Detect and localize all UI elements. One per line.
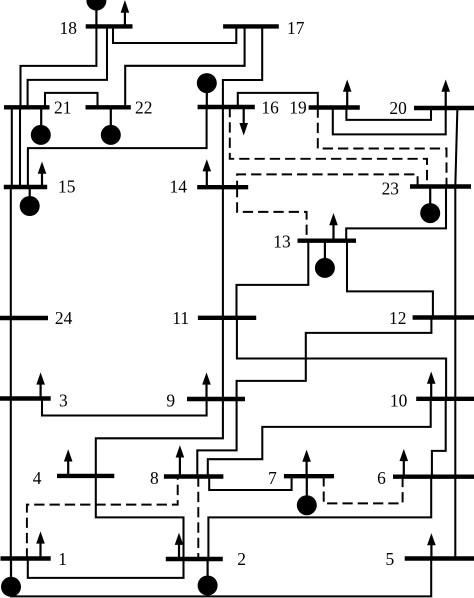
bus 2 bbox=[166, 557, 223, 561]
bus 1 bbox=[1, 556, 51, 560]
wire line 8-10 bbox=[208, 399, 431, 477]
wire line 13-23 bbox=[346, 187, 446, 241]
wire line 16-15 bbox=[28, 107, 207, 187]
svg-text:17: 17 bbox=[287, 18, 305, 38]
wire line 15-21 circuit B bbox=[19, 107, 21, 187]
wire line 18-21 circuit A bbox=[21, 26, 97, 107]
generator G16 bbox=[197, 73, 217, 107]
generator G21 bbox=[31, 107, 51, 145]
generator G18 bbox=[86, 0, 106, 26]
svg-text:22: 22 bbox=[135, 98, 152, 118]
generator G22 bbox=[101, 107, 121, 145]
svg-text:11: 11 bbox=[172, 308, 189, 328]
svg-text:24: 24 bbox=[55, 308, 73, 328]
wire line 23-12 bbox=[454, 187, 456, 318]
dashed candidate line 2-8 bbox=[197, 477, 199, 560]
dashed candidate line 19-23 bbox=[318, 108, 447, 187]
generator G7 bbox=[297, 476, 317, 515]
load arrow bus 8 bbox=[176, 445, 185, 476]
load arrow bus 10 bbox=[427, 372, 436, 399]
bus 12 bbox=[413, 315, 474, 319]
bus 6 bbox=[393, 475, 474, 479]
svg-text:4: 4 bbox=[33, 468, 42, 488]
wire line 15-24 bbox=[10, 187, 12, 318]
load arrow bus 4 bbox=[64, 449, 73, 476]
wire line 16-19 bbox=[238, 93, 318, 108]
svg-text:16: 16 bbox=[261, 98, 279, 118]
dashed candidate line 14-23 bbox=[237, 174, 418, 187]
bus 9 bbox=[187, 397, 245, 401]
svg-text:15: 15 bbox=[58, 177, 76, 197]
wire line 21-22 bbox=[45, 93, 98, 107]
svg-text:8: 8 bbox=[150, 468, 159, 488]
wire line 14-11 bbox=[222, 187, 224, 318]
wire line 5-10 bbox=[454, 399, 456, 559]
wire line 18-21 circuit B bbox=[28, 26, 107, 107]
wire line 13-12 bbox=[347, 241, 433, 318]
generator G2 bbox=[198, 559, 218, 596]
wire line 18-17 bbox=[113, 26, 236, 43]
load arrow bus 18 bbox=[121, 0, 130, 26]
bus 16 bbox=[198, 105, 255, 109]
dashed candidate line 16-23 bbox=[230, 107, 427, 187]
svg-text:12: 12 bbox=[389, 308, 406, 328]
dashed candidate line 1-8 bbox=[27, 477, 178, 559]
generator G1 bbox=[1, 559, 21, 597]
bus 8 bbox=[164, 474, 224, 478]
svg-text:19: 19 bbox=[289, 98, 306, 118]
bus 10 bbox=[416, 397, 474, 401]
wire line 1-2 bbox=[28, 559, 184, 578]
load arrow bus 19 bbox=[343, 80, 352, 108]
wire line 19-20 circuit 1 bbox=[346, 108, 431, 120]
generator G15 bbox=[20, 187, 40, 216]
load arrow bus 14 bbox=[203, 159, 212, 187]
load arrow bus 20 bbox=[441, 80, 450, 109]
wire line 6-10 bbox=[432, 399, 446, 477]
bus 15 bbox=[4, 185, 47, 189]
generator G23 bbox=[420, 187, 440, 224]
svg-text:9: 9 bbox=[166, 391, 175, 411]
svg-text:3: 3 bbox=[59, 391, 68, 411]
load arrow bus 3 bbox=[36, 372, 45, 398]
bus 22 bbox=[86, 105, 131, 109]
dashed candidate line 13-14 bbox=[237, 187, 307, 241]
bus 23 bbox=[410, 184, 471, 188]
wire line 2-4 bbox=[96, 476, 184, 559]
svg-text:20: 20 bbox=[389, 98, 407, 118]
load arrow bus 1 bbox=[36, 531, 45, 558]
svg-text:7: 7 bbox=[268, 468, 277, 488]
bus 3 bbox=[0, 396, 51, 400]
wire line 12-10 bbox=[454, 318, 456, 399]
bus 7 bbox=[284, 474, 334, 478]
wire line 4-9 bbox=[96, 399, 223, 476]
wire line 24-3 bbox=[10, 318, 12, 399]
wire line 7-8 bbox=[209, 476, 291, 490]
wire line 9-12 bbox=[237, 318, 432, 400]
svg-text:5: 5 bbox=[386, 549, 395, 569]
load arrow bus 6 bbox=[400, 449, 409, 477]
svg-text:13: 13 bbox=[273, 231, 291, 251]
bus 17 bbox=[223, 24, 279, 28]
bus 14 bbox=[197, 185, 248, 189]
svg-text:14: 14 bbox=[170, 177, 188, 197]
svg-text:21: 21 bbox=[54, 98, 71, 118]
load arrow bus 13 bbox=[329, 213, 338, 241]
wire line 1-5 bbox=[11, 559, 431, 597]
wire line 8-9 bbox=[197, 399, 236, 477]
load arrow bus 7 bbox=[302, 450, 311, 477]
wire line 20-23 bbox=[455, 108, 457, 187]
bus 19 bbox=[309, 105, 360, 109]
bus 11 bbox=[198, 316, 256, 320]
dashed candidate line 6-7 bbox=[324, 476, 403, 503]
svg-text:1: 1 bbox=[58, 549, 67, 569]
wire line 13-11 bbox=[237, 241, 309, 318]
bus 20 bbox=[414, 106, 474, 110]
bus 18 bbox=[86, 24, 133, 28]
wire line 19-20 circuit 2 bbox=[333, 108, 446, 135]
svg-text:10: 10 bbox=[390, 391, 408, 411]
wire line 15-21 circuit A bbox=[11, 107, 13, 187]
load arrow bus 9 bbox=[202, 372, 211, 399]
load arrow bus 5 bbox=[427, 533, 436, 558]
wire line 3-9 bbox=[42, 399, 207, 416]
wire line 3-1 bbox=[10, 399, 12, 559]
bus 5 bbox=[405, 556, 474, 560]
load arrow bus 2 bbox=[175, 533, 184, 559]
svg-text:23: 23 bbox=[382, 179, 400, 199]
generator G13 bbox=[315, 241, 335, 278]
wire line 11-10 bbox=[237, 318, 446, 399]
bus 21 bbox=[4, 105, 50, 109]
bus 4 bbox=[57, 474, 114, 478]
load arrow bus 15 bbox=[38, 162, 47, 187]
svg-text:2: 2 bbox=[237, 549, 246, 569]
wire line 16-14 bbox=[222, 107, 224, 187]
bus 13 bbox=[298, 238, 357, 242]
svg-text:6: 6 bbox=[377, 468, 386, 488]
wire line 2-6 bbox=[208, 477, 431, 559]
svg-text:18: 18 bbox=[60, 18, 78, 38]
bus 24 bbox=[0, 316, 48, 320]
wire line 11-9 bbox=[222, 318, 224, 399]
load arrow bus 16 (down) bbox=[239, 107, 248, 136]
wire line 17-22 bbox=[125, 26, 244, 107]
wire line 17-16 bbox=[223, 26, 262, 107]
